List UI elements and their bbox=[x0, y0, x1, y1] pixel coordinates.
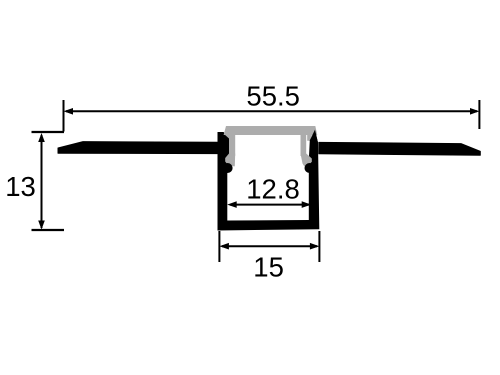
cover right foot bbox=[301, 154, 312, 167]
dim 55.5 line bbox=[66, 110, 477, 112]
cover left foot bbox=[225, 154, 235, 167]
dim 13 bottom arrowhead bbox=[38, 221, 45, 230]
svg-text:12.8: 12.8 bbox=[246, 174, 300, 205]
right wall top spike bbox=[310, 130, 318, 143]
dim 55.5 left arrowhead bbox=[64, 108, 74, 115]
left clip bump bbox=[223, 163, 233, 173]
svg-text:55.5: 55.5 bbox=[246, 81, 300, 112]
cover left leg bbox=[224, 134, 235, 156]
dim 15 right extension line bbox=[318, 231, 320, 262]
dim 15 left extension line bbox=[218, 231, 220, 262]
U channel body bbox=[218, 131, 320, 230]
right flange bbox=[319, 142, 481, 155]
cover right leg bbox=[301, 134, 307, 156]
right clip bump bbox=[305, 163, 315, 173]
dim 13 vertical line bbox=[41, 135, 43, 228]
dim 13 top arrowhead bbox=[38, 133, 45, 142]
dim 15 right arrowhead bbox=[310, 243, 320, 250]
dim 12.8 right arrowhead bbox=[302, 201, 312, 208]
dim 12.8 left arrowhead bbox=[227, 201, 237, 208]
dim 55.5 left extension line bbox=[63, 100, 65, 132]
dim 13 bottom tick bbox=[32, 229, 65, 231]
dim 55.5 right extension line bbox=[478, 100, 480, 129]
dim 12.8 line bbox=[230, 204, 309, 206]
dim 13 top tick bbox=[32, 131, 65, 133]
svg-text:13: 13 bbox=[5, 171, 36, 202]
svg-text:15: 15 bbox=[253, 251, 284, 282]
cover (gray diffuser) top bar bbox=[224, 126, 318, 141]
dim 15 line bbox=[222, 245, 317, 247]
left flange bbox=[58, 142, 218, 154]
dim 15 left arrowhead bbox=[219, 243, 229, 250]
dim 55.5 right arrowhead bbox=[470, 108, 479, 115]
